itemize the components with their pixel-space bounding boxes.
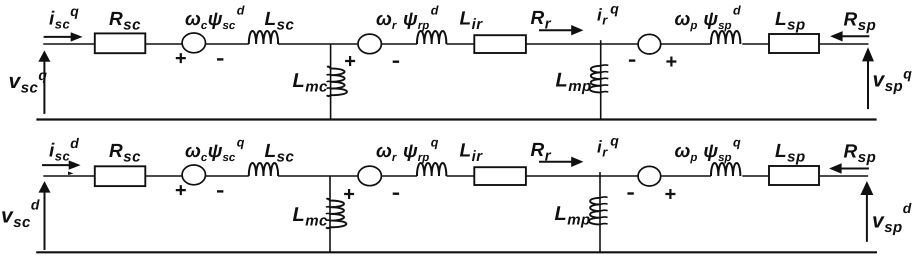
polarity + of source omega_p (bottom): [665, 189, 675, 199]
wire coil to resistor R_sp: [742, 43, 769, 45]
wire coil to node C (bottom ckt): [278, 175, 358, 177]
resistor R_sc (bottom): [95, 166, 146, 186]
wire source to coil L_ir: [381, 43, 417, 45]
svg-text:ωcψscd: ωcψscd: [185, 4, 245, 33]
wire source to coil L_sp: [661, 43, 711, 45]
wire coil to resistor R_r: [446, 43, 474, 45]
svg-text:Rsp: Rsp: [844, 142, 877, 167]
wire R_r to source, node D (bottom ckt): [526, 175, 638, 177]
polarity - of source omega_p (bottom): [627, 192, 633, 194]
source omega_r psi_rp^q (bottom): [358, 166, 381, 186]
resistor R_r (bottom): [474, 167, 526, 185]
source omega_p psi_sp^q (bottom): [638, 166, 661, 186]
svg-text:Rr: Rr: [531, 140, 552, 165]
resistor R_sc (top): [95, 33, 146, 53]
voltage arrow v_sc^d (bottom-left, up): [44, 192, 46, 251]
polarity + of source omega_p (top): [666, 57, 676, 67]
inductor L_sc (bottom): [249, 163, 278, 176]
svg-text:vspd: vspd: [872, 200, 912, 236]
svg-text:Lmp: Lmp: [555, 203, 591, 229]
wire box to source: [145, 43, 182, 45]
polarity - of source omega_r (bottom): [393, 192, 399, 194]
inductor L_mp (top, vertical): [590, 66, 601, 93]
svg-text:irq: irq: [597, 1, 619, 28]
voltage arrow v_sc^q (top-left, up): [43, 61, 45, 114]
wire R_sp to right rail (bottom ckt): [819, 175, 868, 177]
wire source to coil: [206, 43, 249, 45]
bottom return wire (top circuit): [36, 118, 876, 120]
node A branch wire (L_mc leg, top): [330, 44, 332, 120]
polarity + of source omega_c (top): [176, 53, 186, 63]
inductor L_sp (top): [711, 31, 740, 44]
resistor R_r (top): [474, 35, 526, 53]
inductor L_ir (top): [417, 31, 446, 44]
polarity - of source omega_c (top): [217, 58, 223, 60]
wire R_r to source, node B: [526, 43, 638, 45]
polarity - of source omega_p (top): [629, 59, 635, 61]
svg-text:Lmc: Lmc: [293, 70, 329, 96]
inductor L_mc (bottom, vertical): [326, 199, 346, 228]
svg-text:Lmp: Lmp: [556, 70, 592, 96]
svg-text:Rsp: Rsp: [844, 10, 877, 35]
inductor L_mp (bottom, vertical): [589, 198, 600, 225]
current arrow R_sp (top, pointing left): [842, 35, 869, 37]
small arrow artifact below i_sc^d head: [68, 172, 74, 176]
polarity - of source omega_c (bottom): [217, 190, 223, 192]
current arrow R_r / i_r^q (top): [539, 29, 572, 31]
polarity - of source omega_r (top): [393, 61, 399, 63]
svg-text:Lir: Lir: [460, 141, 484, 166]
wire source to coil (bottom ckt): [206, 175, 249, 177]
inductor L_sc (top): [249, 31, 278, 44]
svg-text:ωrψrpq: ωrψrpq: [376, 136, 439, 165]
svg-text:iscq: iscq: [49, 3, 79, 32]
svg-text:Rr: Rr: [531, 8, 552, 33]
svg-text:irq: irq: [597, 133, 619, 160]
wire source to coil L_ir (bottom ckt): [381, 175, 417, 177]
wire coil to node A: [278, 43, 358, 45]
node B branch wire (L_mp leg, top): [600, 40, 602, 119]
current arrow i_sc^q (top): [44, 36, 71, 38]
svg-text:Lir: Lir: [460, 9, 484, 34]
current arrow R_r / i_r^q (bottom): [539, 161, 572, 163]
wire top-left segment (bottom ckt): [43, 175, 95, 177]
node D branch wire (L_mp leg, bottom): [599, 172, 601, 252]
wire coil to resistor R_r (bottom ckt): [446, 175, 474, 177]
source omega_c psi_sc^q (bottom): [182, 165, 205, 185]
svg-text:ωpψspq: ωpψspq: [675, 136, 742, 165]
wire R_sp to right rail: [819, 43, 869, 45]
source omega_r psi_rp^d (top): [358, 34, 381, 54]
source omega_c psi_sc^d (top): [182, 33, 205, 53]
svg-text:ωrψrpd: ωrψrpd: [376, 4, 439, 33]
svg-text:Lsp: Lsp: [775, 141, 806, 166]
voltage arrow v_sp^d (bottom-right, up): [866, 194, 868, 242]
current arrow R_sp (bottom, pointing left): [841, 168, 869, 170]
svg-text:vscd: vscd: [1, 197, 40, 232]
inductor L_ir (bottom): [417, 163, 446, 176]
inductor L_mc (top, vertical): [327, 67, 347, 96]
svg-text:Lsp: Lsp: [775, 9, 806, 34]
source omega_p psi_sp^d (top): [638, 34, 661, 54]
wire coil to resistor R_sp (bottom ckt): [742, 175, 769, 177]
polarity + of source omega_r (top): [345, 56, 355, 66]
svg-text:ωpψspd: ωpψspd: [675, 4, 742, 33]
resistor R_sp (top): [769, 34, 819, 53]
polarity + of source omega_r (bottom): [344, 189, 354, 199]
polarity + of source omega_c (bottom): [176, 185, 186, 195]
wire source to coil L_sp (bottom ckt): [661, 175, 711, 177]
resistor R_sp (bottom): [769, 166, 819, 185]
svg-text:iscd: iscd: [49, 135, 79, 164]
node C branch wire (L_mc leg, bottom): [329, 176, 331, 252]
svg-text:vspq: vspq: [873, 66, 913, 96]
svg-text:Lsc: Lsc: [265, 141, 295, 166]
svg-text:ωcψscq: ωcψscq: [185, 136, 245, 165]
svg-text:Rsc: Rsc: [109, 9, 141, 34]
wire top-left segment: [43, 43, 95, 45]
svg-text:Rsc: Rsc: [109, 141, 141, 166]
current arrow i_sc^d (bottom): [42, 164, 69, 166]
svg-text:Lmc: Lmc: [293, 204, 329, 230]
bottom return wire (bottom circuit): [36, 251, 877, 253]
inductor L_sp (bottom): [711, 163, 740, 176]
voltage arrow v_sp^q (top-right, up): [867, 61, 869, 110]
svg-text:Lsc: Lsc: [265, 9, 295, 34]
svg-text:vscq: vscq: [9, 67, 48, 97]
wire box to source (bottom ckt): [145, 175, 182, 177]
